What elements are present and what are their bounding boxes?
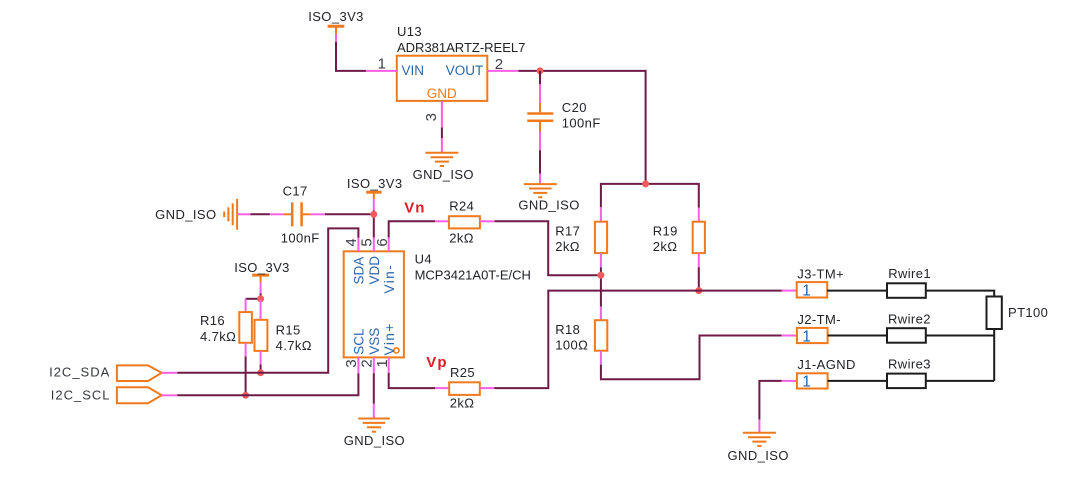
junction R15 / I2C_SDA — [257, 369, 264, 376]
wire U13 pin 3 to ground — [441, 128, 443, 139]
svg-text:C20: C20 — [562, 100, 587, 115]
svg-text:ADR381ARTZ-REEL7: ADR381ARTZ-REEL7 — [397, 40, 525, 55]
power symbol ISO_3V3 P1 (top left) — [308, 9, 364, 43]
wire net Vp from R25 up and right to J3 — [494, 291, 783, 389]
connector J3-TM+ — [782, 266, 845, 299]
power symbol ISO_3V3 P3 (above R15/R16) — [234, 260, 290, 293]
resistor R24 — [435, 199, 494, 246]
svg-text:VIN: VIN — [402, 63, 425, 78]
wire horizontal divider top rail — [601, 184, 699, 208]
svg-text:R19: R19 — [653, 223, 678, 238]
resistor R18 — [555, 307, 607, 365]
svg-text:I2C_SDA: I2C_SDA — [49, 365, 110, 380]
junction top rail — [642, 180, 649, 187]
connector J2-TM- — [782, 312, 841, 345]
wire (black) J2 to Rwire2 — [828, 335, 887, 337]
svg-text:SDA: SDA — [352, 257, 367, 285]
svg-text:ISO_3V3: ISO_3V3 — [234, 260, 290, 275]
svg-text:2kΩ: 2kΩ — [555, 239, 580, 254]
wire R18 bottom to J2 — [601, 336, 782, 380]
svg-text:1: 1 — [802, 328, 811, 345]
svg-text:R16: R16 — [200, 313, 225, 328]
svg-text:R17: R17 — [555, 223, 580, 238]
svg-text:1: 1 — [802, 374, 811, 391]
U4 pin 3 SCL — [343, 328, 367, 373]
svg-text:ISO_3V3: ISO_3V3 — [347, 176, 403, 191]
svg-text:C17: C17 — [283, 184, 308, 199]
svg-text:VDD: VDD — [367, 256, 382, 285]
svg-text:R18: R18 — [555, 322, 580, 337]
ground GND_ISO G4 (under J1) — [728, 420, 789, 463]
wire (black) Rwire2 to PT100 bottom node — [926, 335, 994, 337]
U4 pin 5 VDD — [358, 237, 381, 284]
svg-text:R15: R15 — [276, 322, 301, 337]
capacitor C20 — [527, 84, 600, 150]
svg-text:6: 6 — [374, 238, 391, 246]
U4 pin 1 Vin+ — [374, 322, 397, 373]
U13 pin 2 — [487, 56, 518, 73]
U4 pin 6 Vin- — [374, 237, 397, 293]
svg-text:Rwire2: Rwire2 — [888, 312, 931, 327]
resistor R25 — [435, 365, 494, 410]
svg-text:VOUT: VOUT — [446, 63, 484, 78]
svg-text:Vin-: Vin- — [382, 264, 397, 294]
resistor R16 — [200, 299, 252, 357]
svg-text:J3-TM+: J3-TM+ — [797, 266, 844, 281]
svg-text:R24: R24 — [449, 199, 474, 214]
ground GND_ISO G2 (under C20) — [518, 174, 579, 213]
wire P2 to VDD pin 5 — [373, 210, 375, 237]
svg-text:Rwire1: Rwire1 — [888, 266, 931, 281]
resistor Rwire1 — [887, 266, 931, 298]
svg-text:R25: R25 — [450, 365, 475, 380]
wire R19 bottom to J3 line — [698, 267, 700, 290]
wire R15 bottom to SDA line — [260, 364, 262, 372]
svg-text:100Ω: 100Ω — [555, 338, 588, 353]
svg-text:Vn: Vn — [404, 199, 425, 216]
svg-text:100nF: 100nF — [281, 231, 320, 246]
svg-text:2kΩ: 2kΩ — [653, 239, 678, 254]
junction Vn node — [597, 272, 604, 279]
wire U4 pin 1 to R25 — [389, 373, 436, 388]
connector J1-AGND — [782, 357, 856, 390]
svg-text:Rwire3: Rwire3 — [888, 357, 931, 372]
wire (black) PT100 bottom vertical — [993, 329, 995, 381]
wire net Vn from R24 to R17/R18 junction — [495, 221, 601, 275]
wire net I2C_SCL to U4 pin 3 — [177, 373, 358, 395]
svg-text:ISO_3V3: ISO_3V3 — [308, 9, 364, 24]
svg-text:PT100: PT100 — [1008, 305, 1048, 320]
power symbol ISO_3V3 P2 (above U4) — [347, 176, 403, 210]
wire C20 bottom to ground — [539, 150, 541, 174]
junction R16 / I2C_SCL — [242, 392, 249, 399]
svg-text:GND_ISO: GND_ISO — [155, 207, 216, 222]
wire C17 to ISO_3V3 junction — [325, 213, 374, 215]
svg-text:GND_ISO: GND_ISO — [728, 448, 789, 463]
svg-text:2kΩ: 2kΩ — [450, 396, 475, 411]
resistor R19 — [653, 208, 705, 267]
svg-text:5: 5 — [358, 238, 375, 246]
wire VSS pin 2 to ground — [373, 373, 375, 404]
svg-text:U13: U13 — [397, 24, 422, 39]
resistor PT100 — [987, 297, 1049, 330]
junction ISO_3V3 / C17 / VDD — [370, 211, 377, 218]
U13 pin 3 — [423, 101, 442, 128]
U4 pin 2 VSS — [358, 328, 381, 373]
svg-text:VSS: VSS — [367, 328, 382, 355]
svg-text:2: 2 — [495, 56, 503, 73]
svg-text:4.7kΩ: 4.7kΩ — [200, 329, 236, 344]
wire R16 bottom to SCL line — [245, 356, 247, 395]
regulator U13 body — [397, 24, 526, 101]
svg-text:1: 1 — [374, 359, 391, 367]
global label I2C_SCL — [51, 387, 177, 403]
resistor R17 — [555, 207, 607, 267]
svg-text:GND: GND — [427, 86, 457, 101]
capacitor C17 — [270, 184, 325, 246]
resistor Rwire2 — [887, 312, 931, 343]
svg-text:100nF: 100nF — [562, 116, 601, 131]
junction ISO_3V3 / R15 / R16 — [257, 295, 264, 302]
ground GND_ISO G1 (under U13) — [413, 138, 474, 182]
junction VOUT/C20 — [537, 67, 544, 74]
wire G5 to C17 — [250, 213, 270, 215]
svg-text:2: 2 — [358, 359, 375, 367]
junction R19 / J3 line — [695, 287, 702, 294]
svg-text:Vp: Vp — [426, 354, 447, 371]
svg-text:1: 1 — [802, 283, 811, 300]
IC U4 MCP3421 body — [344, 251, 531, 357]
svg-text:I2C_SCL: I2C_SCL — [51, 388, 111, 403]
wire J1 to ground — [759, 381, 781, 420]
svg-text:SCL: SCL — [352, 328, 367, 355]
resistor R15 — [255, 300, 312, 364]
ground GND_ISO G5 (sideways, left of C17) — [155, 199, 250, 230]
svg-text:Vin+: Vin+ — [382, 322, 397, 355]
U4 pin 4 SDA — [343, 237, 367, 284]
ground GND_ISO G3 (under U4) — [344, 404, 405, 448]
wire P3 junction and jog to R16 — [246, 293, 261, 300]
wire net Vn from U4 pin 6 to R24 — [389, 221, 436, 237]
svg-text:J2-TM-: J2-TM- — [797, 312, 841, 327]
svg-text:MCP3421A0T-E/CH: MCP3421A0T-E/CH — [415, 268, 531, 283]
global label I2C_SDA — [49, 365, 177, 381]
svg-text:GND_ISO: GND_ISO — [413, 167, 474, 182]
svg-text:2kΩ: 2kΩ — [449, 231, 474, 246]
wire (black) J1 to Rwire3 — [828, 380, 887, 382]
svg-text:GND_ISO: GND_ISO — [518, 198, 579, 213]
wire (black) Rwire3 to PT100 bottom node — [926, 380, 994, 382]
wire R17 bottom to junction and down to R18 — [600, 267, 602, 306]
svg-text:GND_ISO: GND_ISO — [344, 433, 405, 448]
wire net I2C_SDA to U4 pin 4 — [177, 228, 358, 372]
svg-text:J1-AGND: J1-AGND — [797, 357, 855, 372]
svg-text:4.7kΩ: 4.7kΩ — [276, 338, 312, 353]
wire (black) Rwire1 to PT100 top — [926, 291, 994, 297]
svg-text:3: 3 — [423, 113, 440, 121]
wire (black) J3 to Rwire1 — [827, 290, 887, 292]
U13 pin 1 — [366, 56, 397, 73]
svg-text:1: 1 — [378, 56, 386, 73]
wire net VOUT from U13 pin 2 to top-right corner down to divider — [518, 71, 645, 184]
resistor Rwire3 — [887, 357, 931, 388]
wire C20 top — [539, 71, 541, 84]
svg-text:U4: U4 — [415, 252, 432, 267]
wire net ISO_3V3 from P1 to U13 pin 1 — [336, 42, 367, 71]
